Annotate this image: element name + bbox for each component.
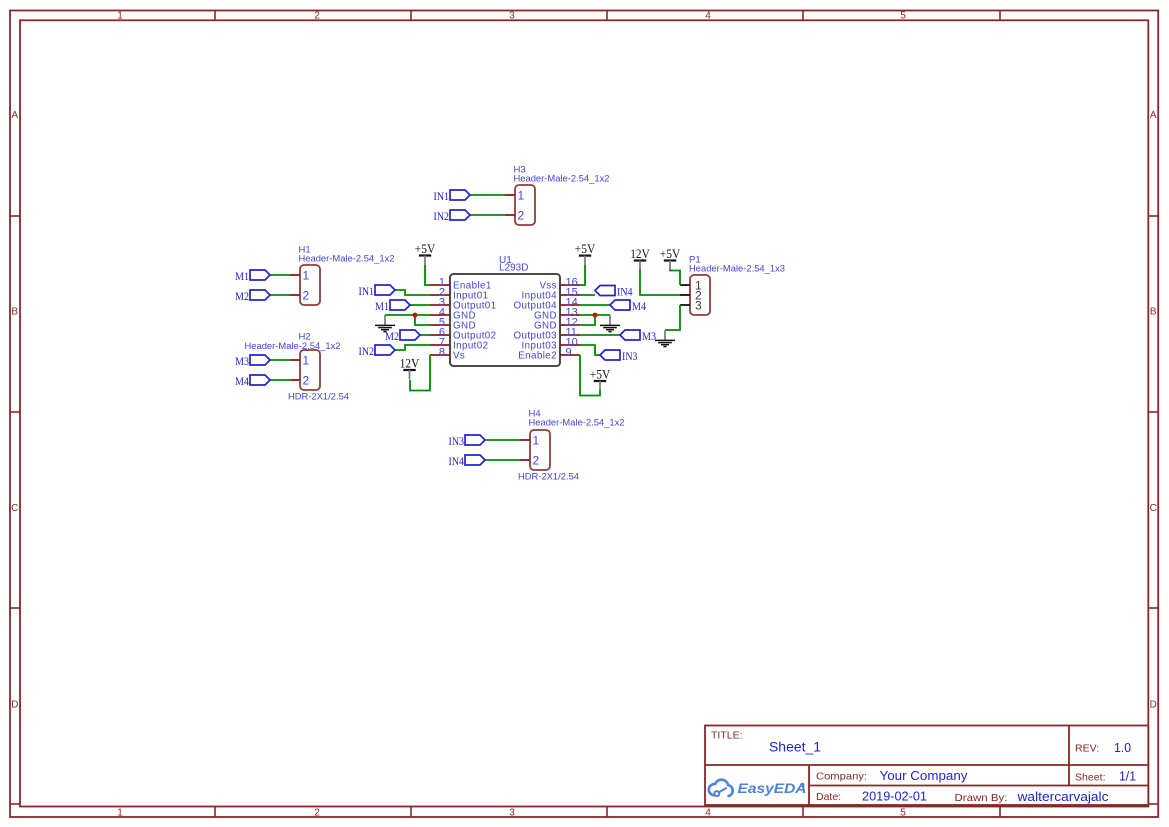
svg-text:M4: M4: [235, 376, 249, 388]
net flag IN2 (at U1 pin7): [375, 345, 395, 355]
svg-text:D: D: [1150, 700, 1157, 711]
wire P1 pin3 to ground: [665, 305, 680, 330]
U1 pin 13 stub: [560, 314, 580, 316]
svg-text:HDR-2X1/2.54: HDR-2X1/2.54: [288, 391, 349, 402]
net flag IN2 (at H3 pin2): [450, 210, 470, 220]
wire IN3 to H4 pin1: [485, 439, 520, 441]
ruler tick bottom 5: [999, 807, 1001, 818]
wire IN3 to U1 pin10: [580, 345, 600, 355]
net flag M1 (at H1 pin1): [250, 270, 270, 280]
wire 12V to P1 pin2: [640, 270, 680, 296]
power symbol +5V (above P1 pin1): [660, 247, 681, 270]
svg-text:M2: M2: [235, 291, 249, 303]
svg-text:1.0: 1.0: [1114, 740, 1131, 755]
P1 pin 3 stub: [680, 304, 690, 306]
net flag IN4 (at U1 pin15): [595, 286, 615, 296]
H3 pin 2 stub: [505, 214, 515, 216]
wire IN1 to H3 pin1: [470, 194, 505, 196]
H1 pin 1 stub: [290, 274, 300, 276]
svg-text:12V: 12V: [630, 247, 650, 261]
wire +5V to U1 pin9 Enable2: [580, 355, 600, 396]
U1 pin 2 stub: [430, 294, 450, 296]
wire +5V to U1 pin16 Vss: [580, 265, 585, 285]
H4 pin 1 stub: [520, 439, 530, 441]
H4 pin 2 stub: [520, 459, 530, 461]
svg-text:2: 2: [518, 209, 525, 223]
svg-text:+5V: +5V: [575, 242, 596, 256]
svg-text:Vs: Vs: [453, 350, 465, 361]
wire M1 to U1 pin3: [410, 304, 430, 306]
U1 pin 1 stub: [430, 284, 450, 286]
U1 pin 9 stub: [560, 354, 580, 356]
svg-text:2: 2: [533, 454, 540, 468]
svg-text:Enable2: Enable2: [518, 350, 557, 361]
ruler tick right 2: [1148, 411, 1158, 413]
header H1 body: [300, 265, 320, 305]
svg-text:REV:: REV:: [1075, 743, 1099, 755]
U1 pin 3 stub: [430, 304, 450, 306]
svg-text:2: 2: [303, 289, 310, 303]
svg-text:1: 1: [117, 807, 123, 818]
svg-text:+5V: +5V: [660, 247, 681, 261]
wire M4 to H2 pin2: [270, 379, 290, 381]
net flag M3 (at U1 pin11): [620, 330, 640, 340]
svg-text:L293D: L293D: [499, 263, 528, 274]
svg-text:2: 2: [314, 11, 320, 22]
header P1 body: [690, 275, 710, 315]
svg-text:Sheet_1: Sheet_1: [769, 739, 821, 754]
svg-text:5: 5: [900, 807, 906, 818]
P1 pin 1 stub: [680, 284, 690, 286]
ruler tick left 2: [10, 411, 20, 413]
title block outline: [705, 726, 1148, 806]
ruler tick top 2: [410, 11, 412, 21]
ruler tick left 3: [10, 607, 20, 609]
svg-text:IN2: IN2: [359, 346, 375, 358]
svg-text:+5V: +5V: [415, 242, 436, 256]
wire GND to U1 pin5: [415, 315, 430, 325]
svg-text:3: 3: [509, 11, 515, 22]
wire +5V to P1 pin1: [670, 270, 680, 286]
power symbol +5V (below U1 pin9): [590, 368, 611, 391]
svg-text:IN1: IN1: [434, 191, 450, 203]
svg-text:Header-Male-2.54_1x3: Header-Male-2.54_1x3: [689, 264, 785, 275]
svg-text:5: 5: [900, 11, 906, 22]
svg-text:4: 4: [705, 11, 711, 22]
svg-text:IN2: IN2: [434, 211, 450, 223]
svg-text:Date:: Date:: [816, 791, 841, 803]
svg-text:EasyEDA: EasyEDA: [738, 781, 807, 796]
net flag IN4 (at H4 pin2): [465, 455, 485, 465]
ground symbol (left of U1 pin4): [375, 315, 395, 332]
ruler tick top 4: [802, 11, 804, 21]
net flag M4 (at H2 pin2): [250, 375, 270, 385]
wire M2 to U1 pin6: [420, 334, 430, 336]
wire M4 to U1 pin14: [580, 304, 610, 306]
svg-text:A: A: [1150, 110, 1157, 121]
wire GND to U1 pin12: [580, 315, 595, 325]
ruler tick right 1: [1148, 215, 1158, 217]
header H4 body: [530, 430, 550, 470]
header H2 body: [300, 350, 320, 390]
svg-text:B: B: [1150, 307, 1157, 318]
svg-text:M1: M1: [235, 271, 249, 283]
ruler tick left 4: [10, 803, 20, 805]
wire IN2 to U1 pin7: [395, 345, 430, 350]
H2 pin 2 stub: [290, 379, 300, 381]
header H3 body: [515, 185, 535, 225]
svg-text:+5V: +5V: [590, 368, 611, 382]
EasyEDA logo cloud icon: [709, 780, 733, 796]
U1 pin 10 stub: [560, 344, 580, 346]
svg-text:C: C: [11, 503, 18, 514]
wire IN4 to H4 pin2: [485, 459, 520, 461]
svg-text:Header-Male-2.54_1x2: Header-Male-2.54_1x2: [529, 418, 625, 429]
svg-text:M4: M4: [632, 301, 646, 313]
power symbol +5V (above U1 pin1): [415, 242, 436, 265]
svg-text:1: 1: [117, 11, 123, 22]
wire IN2 to H3 pin2: [470, 214, 505, 216]
P1 pin 2 stub: [680, 294, 690, 296]
svg-text:Drawn By:: Drawn By:: [955, 792, 1008, 804]
svg-text:Sheet:: Sheet:: [1075, 771, 1106, 783]
U1 pin 7 stub: [430, 344, 450, 346]
ruler tick bottom 4: [802, 807, 804, 818]
svg-text:3: 3: [509, 807, 515, 818]
U1 pin 15 stub: [560, 294, 580, 296]
ruler tick top 3: [606, 11, 608, 21]
svg-text:9: 9: [566, 346, 572, 358]
svg-text:B: B: [11, 307, 18, 318]
ruler tick left 1: [10, 215, 20, 217]
ruler tick right 3: [1148, 607, 1158, 609]
svg-text:C: C: [1150, 503, 1157, 514]
wire GND to U1 pin13: [580, 314, 610, 316]
svg-text:2: 2: [303, 374, 310, 388]
H2 pin 1 stub: [290, 359, 300, 361]
svg-text:TITLE:: TITLE:: [711, 730, 743, 742]
U1 pin 14 stub: [560, 304, 580, 306]
wire M3 to H2 pin1: [270, 359, 290, 361]
svg-text:M2: M2: [385, 331, 399, 343]
wire IN1 to U1 pin2: [395, 290, 430, 295]
svg-text:2019-02-01: 2019-02-01: [862, 789, 927, 803]
svg-text:M3: M3: [235, 356, 249, 368]
net flag M1 (at U1 pin3): [390, 300, 410, 310]
ruler tick top 1: [214, 11, 216, 21]
svg-text:4: 4: [705, 807, 711, 818]
svg-text:1: 1: [303, 354, 310, 368]
wire IN4 to U1 pin15: [580, 294, 595, 296]
wire +5V to U1 pin1: [425, 265, 430, 285]
power symbol 12V (below U1 pin8): [400, 357, 420, 380]
svg-text:IN1: IN1: [359, 286, 375, 298]
wire M3 to U1 pin11: [580, 334, 620, 336]
IC U1 L293D body: [450, 274, 560, 366]
ground symbol (below P1): [655, 330, 675, 347]
power symbol 12V (above P1 pin2): [630, 247, 650, 270]
svg-text:2: 2: [314, 807, 320, 818]
U1 pin 4 stub: [430, 314, 450, 316]
U1 pin 12 stub: [560, 324, 580, 326]
EasyEDA logo registered mark: [801, 783, 805, 787]
U1 pin 11 stub: [560, 334, 580, 336]
svg-text:D: D: [11, 700, 18, 711]
svg-text:3: 3: [695, 299, 702, 313]
svg-text:12V: 12V: [400, 357, 420, 371]
ruler tick bottom 2: [410, 807, 412, 818]
junction node GND right: [593, 313, 598, 318]
net flag IN3 (at H4 pin1): [465, 435, 485, 445]
U1 pin 16 stub: [560, 284, 580, 286]
U1 pin 5 stub: [430, 324, 450, 326]
net flag M3 (at H2 pin1): [250, 355, 270, 365]
net flag IN3 (at U1 pin10): [600, 350, 620, 360]
U1 pin 8 stub: [430, 354, 450, 356]
net flag M2 (at H1 pin2): [250, 290, 270, 300]
svg-text:IN4: IN4: [617, 286, 633, 298]
svg-text:Header-Male-2.54_1x2: Header-Male-2.54_1x2: [514, 174, 610, 185]
svg-text:8: 8: [439, 346, 445, 358]
net flag IN1 (at H3 pin1): [450, 190, 470, 200]
svg-text:1/1: 1/1: [1119, 770, 1136, 784]
svg-text:M3: M3: [642, 331, 656, 343]
wire M2 to H1 pin2: [270, 294, 290, 296]
wire GND to U1 pin4: [385, 314, 430, 316]
svg-text:Header-Male-2.54_1x2: Header-Male-2.54_1x2: [245, 341, 341, 352]
power symbol +5V (above U1 pin16): [575, 242, 596, 265]
net flag IN1 (at U1 pin2): [375, 285, 395, 295]
wire M1 to H1 pin1: [270, 274, 290, 276]
junction node GND left: [413, 313, 418, 318]
svg-text:waltercarvajalc: waltercarvajalc: [1016, 790, 1108, 804]
svg-text:IN3: IN3: [622, 351, 638, 363]
ruler tick right 4: [1148, 803, 1158, 805]
svg-text:IN4: IN4: [449, 456, 465, 468]
svg-text:HDR-2X1/2.54: HDR-2X1/2.54: [518, 472, 579, 483]
net flag M2 (at U1 pin6): [400, 330, 420, 340]
svg-text:M1: M1: [375, 301, 389, 313]
net flag M4 (at U1 pin14): [610, 300, 630, 310]
H1 pin 2 stub: [290, 294, 300, 296]
svg-text:Your Company: Your Company: [880, 769, 969, 783]
U1 pin 6 stub: [430, 334, 450, 336]
svg-text:A: A: [11, 110, 18, 121]
ground symbol (right of U1 pin13): [600, 315, 620, 332]
ruler tick top 5: [999, 11, 1001, 21]
svg-text:Header-Male-2.54_1x2: Header-Male-2.54_1x2: [299, 254, 395, 265]
H3 pin 1 stub: [505, 194, 515, 196]
svg-text:Company:: Company:: [816, 771, 867, 783]
ruler tick bottom 3: [606, 807, 608, 818]
svg-text:1: 1: [533, 434, 540, 448]
wire 12V to U1 pin8 Vs: [410, 355, 430, 391]
svg-text:IN3: IN3: [449, 436, 465, 448]
svg-text:1: 1: [303, 269, 310, 283]
ruler tick bottom 1: [214, 807, 216, 818]
svg-text:1: 1: [518, 189, 525, 203]
